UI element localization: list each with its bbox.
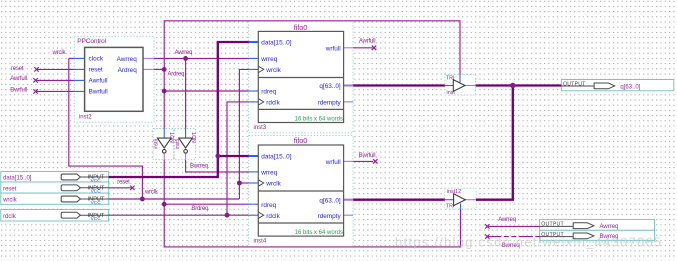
svg-text:VCC: VCC — [91, 178, 102, 184]
wire: wrclk vertical up to fifo inst3 wrclk — [239, 69, 248, 199]
svg-text:wrfull: wrfull — [325, 45, 341, 52]
stubs PPControl left ports — [74, 58, 84, 91]
wire: Bwrreq from NOT inst5 to fifo inst4 wrreq — [186, 160, 249, 172]
component OUTPUT pin q[63..0] — [561, 81, 640, 90]
junction: wrclk / fifo inst4 wrclk — [237, 181, 242, 186]
svg-text:rdreq: rdreq — [261, 89, 276, 96]
component OUTPUT pin Awrreq — [540, 222, 619, 230]
stubs fifo4 right — [344, 161, 354, 215]
svg-text:VCC: VCC — [91, 200, 102, 206]
wire: Brdreq into fifo0 inst4 rdreq — [164, 203, 248, 205]
junction: Ardreq at PPControl output — [162, 67, 167, 72]
svg-text:16 bits x 64 words: 16 bits x 64 words — [295, 230, 343, 236]
box OUTPUT Bwrreq — [540, 230, 655, 240]
x marker: Awrfull at fifo inst3 — [372, 46, 376, 50]
svg-text:OUTPUT: OUTPUT — [563, 81, 586, 87]
svg-text:Bwrfull: Bwrfull — [89, 89, 108, 96]
component NOT gate inst5 — [175, 129, 198, 160]
svg-text:Awrreq: Awrreq — [175, 50, 193, 56]
stubs fifo4 left — [249, 156, 259, 215]
svg-text:Awrfull: Awrfull — [10, 76, 27, 82]
svg-text:Bwrreq: Bwrreq — [190, 163, 208, 169]
svg-text:Awrfull: Awrfull — [359, 39, 376, 45]
wire: Awrreq dangling to OUTPUT pin — [487, 225, 539, 227]
pin boxes (white, teal solid) — [1, 80, 674, 241]
net labels — [10, 39, 519, 249]
boundary TRI inst — [445, 74, 476, 95]
svg-text:wrclk: wrclk — [265, 67, 281, 74]
x marker: reset from input pin — [130, 186, 134, 190]
bus: q out of fifo inst3 to TRI inst — [353, 84, 445, 86]
component TRI buffer inst — [445, 74, 476, 95]
junction: Ardreq / fifo inst3 rdreq — [162, 89, 167, 94]
svg-text:Awrreq: Awrreq — [117, 56, 138, 63]
svg-text:rdempty: rdempty — [318, 100, 342, 107]
svg-text:Ardreq: Ardreq — [118, 67, 138, 74]
svg-text:rdempty: rdempty — [318, 213, 342, 220]
wire: rdreq into fifo0 inst3 — [164, 90, 248, 92]
x marker: Awrfull into PPControl — [33, 78, 37, 82]
X-LAYER dangling markers — [33, 46, 489, 239]
clock triangle wrclk — [258, 66, 264, 72]
wire: Ardreq from PPControl — [154, 68, 164, 70]
svg-text:Brdreq: Brdreq — [191, 206, 208, 212]
component INPUT pin data[15..0] — [3, 174, 109, 184]
svg-text:wrclk: wrclk — [265, 181, 281, 188]
clock triangle wrclk — [258, 180, 264, 186]
junction: q bus at TRI inst output — [510, 83, 515, 88]
bus: data[15..0] from input pin up to fifo inst3 — [109, 42, 249, 177]
box INPUT reset — [1, 182, 109, 193]
svg-text:fifo0: fifo0 — [294, 23, 308, 32]
junction: Brdreq / fifo inst4 rdreq (dot B) — [162, 202, 167, 207]
svg-text:clock: clock — [89, 56, 104, 63]
bus: data branch to fifo inst4 — [218, 155, 249, 157]
svg-text:rdclk: rdclk — [3, 214, 17, 220]
box INPUT wrclk — [1, 193, 109, 204]
svg-text:rdclk: rdclk — [266, 100, 280, 107]
BUS-LAYER (thick) — [109, 42, 562, 200]
svg-text:PPControl: PPControl — [77, 38, 106, 45]
boundary NOT inst5 — [174, 129, 195, 160]
svg-text:Ardreq: Ardreq — [168, 71, 185, 77]
x marker: Awrreq at OUTPUT pin — [485, 224, 489, 228]
component fifo0 inst3 — [249, 23, 354, 131]
boundary line below Bwrreq output — [540, 241, 655, 243]
junction: Awrreq / NOT inst5 input — [183, 56, 188, 61]
svg-text:inst12: inst12 — [447, 189, 461, 195]
svg-text:wrreq: wrreq — [260, 170, 277, 177]
svg-text:reset: reset — [117, 179, 130, 185]
clock triangle rdclk — [258, 99, 264, 105]
wire: rdclk from input pin to fifo inst4 rdclk — [109, 214, 249, 216]
svg-text:data[15..0]: data[15..0] — [3, 176, 32, 182]
svg-text:rdclk: rdclk — [266, 213, 280, 220]
svg-text:NOT: NOT — [192, 132, 198, 143]
svg-text:OUTPUT: OUTPUT — [541, 222, 564, 228]
box OUTPUT q[63..0] — [561, 80, 674, 91]
symbol boundary fills (white, teal dashed) — [74, 21, 476, 247]
svg-text:16 bits x 64 words: 16 bits x 64 words — [295, 116, 343, 122]
WIRES-LAYER — [36, 21, 540, 247]
x marker: Bwrfull into PPControl — [33, 89, 37, 93]
svg-text:data[15..0]: data[15..0] — [261, 154, 291, 161]
component TRI buffer inst12 — [445, 189, 476, 209]
svg-text:reset: reset — [11, 66, 24, 72]
svg-text:q[63..0]: q[63..0] — [319, 197, 341, 204]
wire: wrclk net vertical and over to input column — [69, 58, 143, 199]
svg-text:Bwrfull: Bwrfull — [10, 87, 27, 93]
x marker: Bwrreq at OUTPUT pin — [485, 234, 489, 238]
svg-text:Awrreq: Awrreq — [498, 217, 516, 223]
boundary TRI inst12 — [445, 188, 476, 209]
box INPUT data[15..0] — [1, 172, 109, 183]
svg-text:reset: reset — [89, 67, 103, 74]
box OUTPUT Awrreq — [540, 219, 655, 230]
svg-text:reset: reset — [3, 186, 17, 192]
svg-text:inst4: inst4 — [254, 239, 267, 245]
junction: data bus / fifo inst4 branch — [215, 154, 220, 159]
bus: q vertical joining TRI inst12 — [476, 86, 513, 200]
bus: q out of fifo inst4 to TRI inst12 — [353, 199, 445, 201]
wire: reset dangling from input pin — [109, 187, 133, 189]
boundary NOT inst6 — [153, 129, 173, 160]
box INPUT rdclk — [1, 210, 109, 222]
component PPControl U-inst2 — [74, 38, 154, 120]
junction: rdclk branch (dot C) — [225, 213, 230, 218]
svg-text:wrfull: wrfull — [325, 159, 341, 166]
svg-text:inst2: inst2 — [79, 115, 92, 121]
svg-text:inst3: inst3 — [254, 125, 267, 131]
svg-text:wrreq: wrreq — [260, 56, 277, 63]
svg-text:TRI: TRI — [446, 75, 455, 81]
component NOT gate inst6 — [154, 129, 176, 160]
svg-text:wrclk: wrclk — [2, 197, 18, 203]
bus: q from TRI inst to OUTPUT pin — [476, 84, 562, 86]
wire: Awrfull dangling into PPControl — [36, 79, 75, 81]
component OUTPUT pin Bwrreq — [540, 232, 619, 240]
svg-text:VCC: VCC — [91, 189, 102, 195]
wire: Awrfull dangling from fifo inst3 wrfull — [353, 47, 372, 49]
wire: Ardreq top route to TRI inst enable — [164, 21, 460, 129]
component fifo0 inst4 — [249, 136, 354, 245]
wire: Awrreq down to NOT inst5 — [185, 58, 187, 128]
component INPUT pin rdclk — [3, 212, 109, 222]
svg-text:q[63..0]: q[63..0] — [620, 84, 640, 90]
wire: Bwrreq dangling to OUTPUT pin — [487, 236, 539, 238]
svg-text:Awrreq: Awrreq — [600, 224, 619, 230]
wire: wrclk horizontal from input pin — [109, 198, 240, 200]
stubs PPControl right ports — [143, 58, 154, 69]
boundary fifo0 inst3 — [249, 21, 354, 133]
component INPUT pin wrclk — [2, 196, 109, 206]
svg-text:data[15..0]: data[15..0] — [261, 40, 291, 47]
svg-text:TRI: TRI — [446, 203, 455, 209]
wire: rdclk branch up to fifo inst3 rdclk — [227, 102, 249, 215]
svg-text:inst6: inst6 — [154, 139, 160, 150]
wire: Brdreq from NOT inst6 down and right to TRI inst12 enable — [164, 160, 460, 247]
component INPUT pin reset — [3, 185, 109, 195]
boundary PPControl inst2 — [74, 36, 154, 122]
wire: Bwrfull dangling from fifo inst4 wrfull — [353, 160, 373, 162]
svg-text:wrclk: wrclk — [52, 50, 67, 56]
svg-text:q[63..0]: q[63..0] — [319, 83, 341, 90]
junction: wrclk at input pin column (dot A) — [140, 197, 145, 202]
wire: reset dangling into PPControl — [37, 68, 75, 70]
wire: Bwrfull dangling into PPControl — [36, 90, 75, 92]
wire: wrclk stub into PPControl clock — [69, 57, 75, 59]
svg-text:inst: inst — [447, 90, 456, 96]
svg-text:wrclk: wrclk — [144, 190, 159, 196]
svg-text:VCC: VCC — [91, 216, 102, 222]
svg-text:rdreq: rdreq — [261, 202, 276, 209]
x marker: reset into PPControl — [34, 67, 38, 71]
svg-text:fifo0: fifo0 — [294, 136, 308, 145]
svg-text:Awrfull: Awrfull — [89, 78, 108, 85]
stubs fifo3 right — [344, 48, 354, 102]
wire: wrclk branch to fifo inst4 wrclk — [239, 182, 248, 184]
clock triangle rdclk — [258, 212, 264, 218]
svg-text:Bwrfull: Bwrfull — [359, 153, 376, 159]
stubs fifo3 left — [249, 42, 259, 102]
x marker: Bwrfull at fifo inst4 — [373, 159, 377, 163]
svg-text:https://blog.csdn.net/weixin_4: https://blog.csdn.net/weixin_44307065 — [395, 234, 662, 249]
svg-text:inst5: inst5 — [175, 139, 181, 150]
wire: Awrreq from PPControl to fifo inst3 wrreq — [154, 57, 249, 59]
boundary fifo0 inst4 — [249, 135, 354, 247]
